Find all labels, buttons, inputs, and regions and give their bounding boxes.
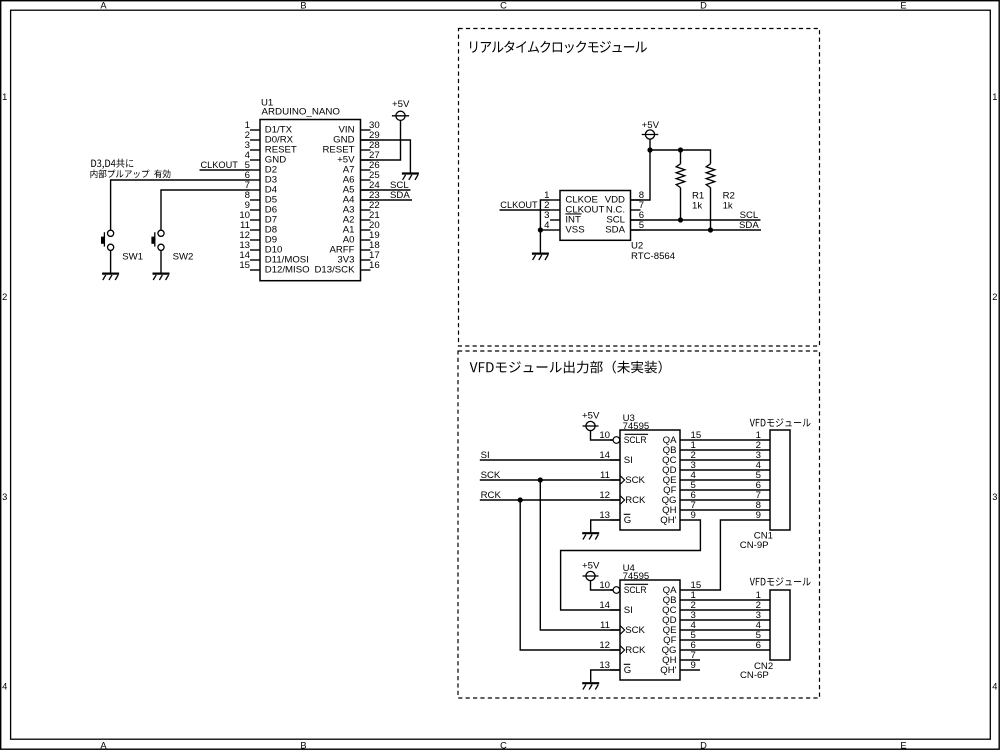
wire RCK branch to U4 pin12 bbox=[520, 500, 620, 650]
svg-text:QH': QH' bbox=[660, 665, 676, 676]
svg-text:A: A bbox=[100, 741, 107, 750]
switch SW1 top contact bbox=[108, 230, 114, 236]
U1 pin 16 stub bbox=[361, 269, 371, 271]
U3 pin 12 stub bbox=[610, 499, 620, 501]
svg-text:6: 6 bbox=[756, 640, 761, 651]
U1 pin 2 stub bbox=[250, 139, 260, 141]
ground symbol at U4 bbox=[582, 682, 599, 684]
wire U4 QF to CN2 pin 5 bbox=[700, 639, 770, 641]
wire +5V symbol down bbox=[649, 139, 651, 150]
U4 pin 3 stub bbox=[680, 619, 700, 621]
ground symbol at U3 bbox=[582, 532, 599, 534]
U3 pin 7 stub bbox=[680, 509, 700, 511]
svg-text:SDA: SDA bbox=[739, 220, 759, 231]
svg-text:2: 2 bbox=[2, 292, 7, 302]
wire SW1 to ground bbox=[110, 250, 112, 272]
U4 pin 10 stub bbox=[610, 589, 613, 591]
U1 pin 17 stub bbox=[361, 259, 371, 261]
ic U1 ARDUINO_NANO body bbox=[260, 120, 361, 281]
svg-text:16: 16 bbox=[369, 260, 380, 271]
U3 pin 5 stub bbox=[680, 489, 700, 491]
svg-text:SCK: SCK bbox=[481, 470, 501, 481]
+5V power symbol at U1 bbox=[396, 111, 405, 120]
svg-text:CLKOUT: CLKOUT bbox=[201, 160, 239, 171]
svg-text:CN-9P: CN-9P bbox=[740, 540, 769, 551]
U3 pin 10 inverter bubble bbox=[613, 437, 620, 444]
wire SCL from U1 pin24 A5 bbox=[361, 189, 411, 191]
svg-text:SI: SI bbox=[624, 455, 633, 466]
svg-text:G: G bbox=[624, 665, 631, 676]
junction R2 bottom on SDA bbox=[708, 227, 713, 232]
U4 G overline bbox=[624, 663, 631, 665]
U1 pin 18 stub bbox=[361, 249, 371, 251]
U4 pin 10 inverter bubble bbox=[613, 587, 620, 594]
U3 pin 10 stub bbox=[610, 439, 613, 441]
U3 pin 1 stub bbox=[680, 449, 700, 451]
wire U4 QC to CN2 pin 2 bbox=[700, 609, 770, 611]
U1 pin 25 stub bbox=[361, 179, 371, 181]
svg-text:SCK: SCK bbox=[625, 625, 645, 636]
CN1 VFD module label bbox=[750, 418, 811, 427]
U1 pin 20 stub bbox=[361, 229, 371, 231]
wire U2 pin8 VDD to +5V bbox=[631, 150, 651, 200]
+5V power symbol at U3 bbox=[586, 421, 595, 430]
wire SCL from U2 pin6 bbox=[631, 219, 761, 221]
wire CLKOUT to U2 pin2 bbox=[500, 209, 551, 211]
U2 pin 2 stub bbox=[550, 209, 560, 211]
junction +5V at VDD riser bbox=[647, 147, 652, 152]
svg-text:SI: SI bbox=[481, 450, 490, 461]
wire SDA from U2 pin5 bbox=[631, 229, 762, 231]
svg-text:+5V: +5V bbox=[582, 410, 600, 421]
U4 pin 15 stub bbox=[680, 589, 700, 591]
junction VSS ground node bbox=[538, 227, 543, 232]
wire U4 QB to CN2 pin 1 bbox=[700, 599, 770, 601]
U2 pin 1 stub bbox=[550, 199, 560, 201]
U1 pin 24 stub bbox=[361, 189, 371, 191]
svg-text:RTC-8564: RTC-8564 bbox=[631, 251, 676, 262]
wire SW2 to ground bbox=[160, 250, 162, 272]
svg-text:4: 4 bbox=[2, 681, 7, 691]
wire U3 QH' cascade to U4 SI bbox=[561, 520, 701, 610]
svg-text:15: 15 bbox=[239, 260, 250, 271]
U1 pin 12 stub bbox=[250, 239, 260, 241]
U3 G overline bbox=[624, 513, 631, 515]
svg-text:ARDUINO_NANO: ARDUINO_NANO bbox=[262, 107, 341, 118]
wire U4 QG to CN2 pin 6 bbox=[700, 649, 770, 651]
svg-text:SCLR: SCLR bbox=[624, 585, 647, 596]
wire U3 QF to CN1 pin 6 bbox=[700, 489, 770, 491]
svg-text:9: 9 bbox=[756, 510, 761, 521]
U1 pin 28 stub bbox=[361, 149, 371, 151]
ground symbol at U2 bbox=[532, 253, 549, 255]
U1 pin 6 stub bbox=[250, 179, 260, 181]
ic U3 74595 body bbox=[620, 430, 680, 530]
U2 pin 8 stub bbox=[631, 199, 641, 201]
junction SCK branch bbox=[538, 477, 543, 482]
U3 pin 11 clock mark bbox=[620, 476, 625, 485]
svg-text:C: C bbox=[500, 1, 507, 11]
ic U2 RTC-8564 body bbox=[560, 191, 631, 241]
U1 pin 15 stub bbox=[250, 269, 260, 271]
U2 pin 5 stub bbox=[631, 229, 641, 231]
U1 pin 7 stub bbox=[250, 189, 260, 191]
wire U1 pin27 +5V to symbol bbox=[361, 120, 401, 160]
wire SCK to U3 pin11 bbox=[480, 479, 620, 481]
svg-text:SCK: SCK bbox=[625, 475, 645, 486]
U2 pin 6 stub bbox=[631, 219, 641, 221]
wire VSS node to ground symbol bbox=[539, 230, 541, 253]
wire U4 G to ground bbox=[591, 670, 620, 682]
connector CN1 body bbox=[770, 430, 790, 530]
switch SW1 plunger bbox=[103, 232, 105, 246]
U3 pin 3 stub bbox=[680, 469, 700, 471]
U1 pin 22 stub bbox=[361, 209, 371, 211]
U1 pin 26 stub bbox=[361, 169, 371, 171]
U1 pin 5 stub bbox=[250, 169, 260, 171]
svg-text:E: E bbox=[900, 1, 906, 11]
U4 pin 12 stub bbox=[610, 649, 620, 651]
svg-text:E: E bbox=[900, 741, 906, 750]
svg-text:B: B bbox=[300, 741, 306, 750]
svg-text:SDA: SDA bbox=[390, 190, 410, 201]
U3 pin 14 stub bbox=[610, 459, 620, 461]
U1 pin 9 stub bbox=[250, 209, 260, 211]
resistor R1 body bbox=[680, 150, 682, 164]
U1 pin 8 stub bbox=[250, 199, 260, 201]
U4 pin 9 stub bbox=[680, 669, 700, 671]
svg-text:+5V: +5V bbox=[642, 120, 660, 131]
section title realtime clock module bbox=[470, 41, 647, 54]
wire U3 QB to CN1 pin 2 bbox=[700, 449, 770, 451]
U3 pin 13 stub bbox=[610, 519, 620, 521]
dashed frame RTC module section bbox=[459, 29, 820, 347]
svg-text:B: B bbox=[300, 1, 306, 11]
junction RCK branch bbox=[518, 497, 523, 502]
ground symbol below SW2 bbox=[153, 273, 170, 275]
section title VFD module output bbox=[470, 361, 662, 374]
svg-text:SW2: SW2 bbox=[173, 252, 194, 263]
U4 pin 4 stub bbox=[680, 629, 700, 631]
wire U3 QA to CN1 pin 1 bbox=[700, 439, 770, 441]
wire U4 QE to CN2 pin 4 bbox=[700, 629, 770, 631]
+5V power symbol at U4 bbox=[586, 571, 595, 580]
switch SW1 bottom contact bbox=[108, 244, 114, 250]
U4 pin 1 stub bbox=[680, 599, 700, 601]
svg-text:SCLR: SCLR bbox=[624, 435, 647, 446]
wire U2 pin1 CLKOE to VSS net bbox=[540, 200, 550, 230]
CN2 VFD module label bbox=[750, 577, 811, 586]
switch SW2 bottom contact bbox=[158, 244, 164, 250]
svg-text:2: 2 bbox=[992, 292, 997, 302]
svg-text:74595: 74595 bbox=[623, 571, 650, 582]
svg-text:D12/MISO: D12/MISO bbox=[265, 265, 310, 276]
svg-text:QH': QH' bbox=[660, 515, 676, 526]
resistor R2 body bbox=[706, 164, 715, 188]
svg-text:RCK: RCK bbox=[481, 490, 502, 501]
junction R1 top bbox=[678, 147, 683, 152]
svg-text:1k: 1k bbox=[692, 201, 702, 212]
U3 pin 9 stub bbox=[680, 519, 700, 521]
U3 pin 6 stub bbox=[680, 499, 700, 501]
svg-text:G: G bbox=[624, 515, 631, 526]
wire U1 pin29 GND to ground bbox=[361, 140, 411, 173]
U3 pin 15 stub bbox=[680, 439, 700, 441]
U2 pin 3 stub bbox=[550, 219, 560, 221]
note D3 D4 pullup line1 bbox=[91, 159, 133, 169]
U1 pin 10 stub bbox=[250, 219, 260, 221]
svg-text:D13/SCK: D13/SCK bbox=[315, 265, 356, 276]
U4 pin 7 stub bbox=[680, 659, 700, 661]
dashed frame VFD module section bbox=[458, 351, 820, 698]
svg-text:A: A bbox=[100, 1, 107, 11]
svg-text:D: D bbox=[700, 1, 707, 11]
U4 pin 11 clock mark bbox=[620, 626, 625, 635]
junction R1 bottom on SCL bbox=[678, 217, 683, 222]
wire +5V to U3 SCLR bbox=[591, 431, 614, 440]
U1 pin 29 stub bbox=[361, 139, 371, 141]
wire +5V rail to R1 R2 tops bbox=[650, 150, 711, 164]
U1 pin 21 stub bbox=[361, 219, 371, 221]
U4 pin 12 clock mark bbox=[620, 646, 625, 655]
wire SDA from U1 pin23 A4 bbox=[361, 199, 413, 201]
wire U3 QD to CN1 pin 4 bbox=[700, 469, 770, 471]
svg-text:4: 4 bbox=[992, 681, 997, 691]
U2 INT overline bbox=[565, 213, 581, 215]
svg-text:SDA: SDA bbox=[605, 225, 625, 236]
svg-text:SI: SI bbox=[624, 605, 633, 616]
svg-text:3: 3 bbox=[992, 492, 997, 502]
svg-text:+5V: +5V bbox=[582, 560, 600, 571]
svg-text:9: 9 bbox=[691, 510, 696, 521]
svg-text:3: 3 bbox=[2, 492, 7, 502]
U4 SCLR overline bbox=[625, 583, 649, 585]
switch SW2 plunger bbox=[154, 232, 156, 246]
U3 SCLR overline bbox=[625, 433, 649, 435]
note D3 D4 pullup line2 bbox=[91, 170, 171, 179]
wire +5V to U4 SCLR bbox=[591, 581, 614, 590]
U3 pin 2 stub bbox=[680, 459, 700, 461]
U1 pin 19 stub bbox=[361, 239, 371, 241]
U1 pin 30 stub bbox=[361, 129, 371, 131]
connector CN2 body bbox=[770, 590, 790, 660]
ground symbol below SW1 bbox=[102, 273, 119, 275]
svg-text:CN-6P: CN-6P bbox=[740, 670, 769, 681]
U4 pin 11 stub bbox=[610, 629, 620, 631]
svg-text:D: D bbox=[700, 741, 707, 750]
svg-text:1: 1 bbox=[2, 92, 7, 102]
U4 pin 2 stub bbox=[680, 609, 700, 611]
wire SI to U3 pin14 bbox=[480, 459, 620, 461]
U2 pin 7 stub bbox=[631, 209, 641, 211]
svg-text:RCK: RCK bbox=[625, 495, 646, 506]
U1 pin 13 stub bbox=[250, 249, 260, 251]
wire U3 QG to CN1 pin 7 bbox=[700, 499, 770, 501]
U3 pin 11 stub bbox=[610, 479, 620, 481]
U1 pin 3 stub bbox=[250, 149, 260, 151]
wire RCK to U3 pin12 bbox=[480, 499, 620, 501]
U1 pin 11 stub bbox=[250, 229, 260, 231]
wire U3 QH to CN1 pin 8 bbox=[700, 509, 770, 511]
U4 pin 14 stub bbox=[610, 609, 620, 611]
U3 pin 12 clock mark bbox=[620, 496, 625, 505]
switch SW2 top contact bbox=[158, 230, 164, 236]
U3 pin 4 stub bbox=[680, 479, 700, 481]
U4 pin 5 stub bbox=[680, 639, 700, 641]
wire U3 QE to CN1 pin 5 bbox=[700, 479, 770, 481]
svg-text:RCK: RCK bbox=[625, 645, 646, 656]
ic U4 74595 body bbox=[620, 580, 680, 680]
svg-text:C: C bbox=[500, 741, 507, 750]
wire U4 QA to CN1 pin 9 bbox=[700, 520, 770, 590]
+5V power symbol at U2 bbox=[645, 130, 654, 139]
U2 pin 4 stub bbox=[550, 229, 560, 231]
U4 pin 13 stub bbox=[610, 669, 620, 671]
U1 pin 14 stub bbox=[250, 259, 260, 261]
U1 pin 1 stub bbox=[250, 129, 260, 131]
wire U3 QC to CN1 pin 3 bbox=[700, 459, 770, 461]
U1 pin 4 stub bbox=[250, 159, 260, 161]
wire U3 G to ground bbox=[591, 520, 620, 532]
svg-text:1k: 1k bbox=[723, 201, 733, 212]
wire SCK branch to U4 pin11 bbox=[540, 480, 620, 630]
svg-text:SW1: SW1 bbox=[122, 252, 143, 263]
wire U2 pin4 VSS to ground bbox=[540, 229, 550, 231]
svg-text:CLKOUT: CLKOUT bbox=[500, 200, 538, 211]
wire D4 net to SW2 bbox=[161, 190, 250, 230]
U4 pin 6 stub bbox=[680, 649, 700, 651]
svg-text:1: 1 bbox=[992, 92, 997, 102]
svg-text:+5V: +5V bbox=[392, 99, 410, 110]
wire D3 net to SW1 bbox=[111, 180, 250, 230]
U1 pin 23 stub bbox=[361, 199, 371, 201]
svg-text:74595: 74595 bbox=[623, 421, 650, 432]
svg-text:VSS: VSS bbox=[565, 225, 584, 236]
U1 pin 27 stub bbox=[361, 159, 371, 161]
svg-text:9: 9 bbox=[691, 660, 696, 671]
ground symbol at U1 bbox=[402, 172, 419, 174]
wire CLKOUT to U1 pin5 D2 bbox=[200, 169, 251, 171]
wire U4 QD to CN2 pin 3 bbox=[700, 619, 770, 621]
